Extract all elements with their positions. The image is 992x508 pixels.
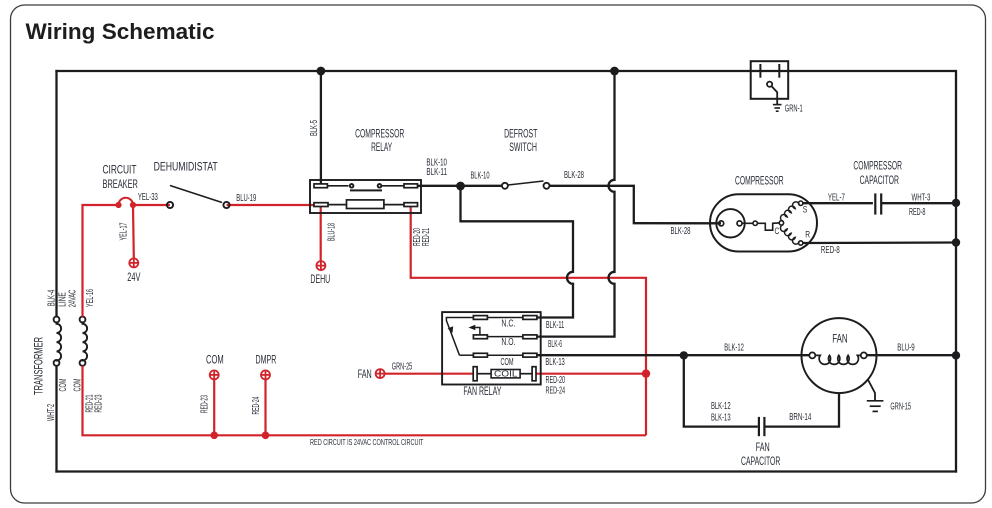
svg-text:BLU-18: BLU-18 (327, 223, 338, 241)
svg-text:BLK-13: BLK-13 (545, 357, 565, 368)
node red coil junction (642, 369, 650, 377)
svg-text:BLK-11: BLK-11 (426, 167, 447, 178)
svg-text:BLK-10: BLK-10 (471, 170, 490, 181)
wire bottom bus (55, 470, 957, 472)
svg-text:RED CIRCUIT IS 24VAC CONTROL C: RED CIRCUIT IS 24VAC CONTROL CIRCUIT (310, 437, 423, 447)
svg-text:RED-23: RED-23 (200, 395, 211, 413)
wire RED-23 COM terminal drop (213, 380, 215, 436)
node right bus RED-8 (952, 238, 960, 246)
svg-text:24V: 24V (127, 270, 140, 284)
node right bus BLU-9 (952, 351, 960, 359)
compressor overload circle (716, 209, 744, 237)
wire fan capacitor branch (684, 355, 758, 426)
svg-text:BLK-5: BLK-5 (309, 120, 320, 136)
svg-text:GRN-1: GRN-1 (785, 104, 803, 115)
wire RED-21/23 secondary down to red bus (83, 366, 647, 436)
svg-text:BLK-4: BLK-4 (47, 289, 58, 306)
wire BLU-18 relay to DEHU terminal (320, 207, 322, 262)
compressor capacitor C1 (874, 193, 876, 214)
wire left border top (BLK-4) (55, 70, 57, 317)
node red bus / COM (210, 432, 218, 440)
terminal FAN (376, 369, 385, 378)
svg-text:YEL-16: YEL-16 (85, 289, 96, 307)
plug P1 ground pin (767, 82, 772, 87)
wire BLK-13/BLK-12 com to fan (537, 354, 810, 356)
compressor M1 shell (710, 194, 817, 251)
relay K1 contact terminals (314, 184, 327, 188)
node red bus / DMPR (262, 432, 270, 440)
fan relay COM terminals (473, 353, 487, 357)
svg-text:FAN: FAN (832, 332, 848, 346)
dehumidistat switch (170, 186, 222, 203)
node junction top bus / BLK-5 (317, 67, 326, 76)
wire left border bottom (WHT-2) (55, 366, 57, 473)
svg-text:COMPRESSOR: COMPRESSOR (853, 159, 902, 173)
svg-text:RED-8: RED-8 (821, 245, 840, 256)
circuit breaker CB1 (118, 198, 133, 205)
plug P1 box (751, 61, 789, 99)
svg-text:WHT-3: WHT-3 (912, 192, 931, 203)
svg-text:DEHU: DEHU (310, 272, 330, 286)
compressor run winding R (781, 225, 800, 244)
svg-text:C: C (775, 226, 780, 236)
svg-text:S: S (803, 205, 808, 215)
svg-text:COM: COM (501, 357, 514, 368)
wire BLK-5 top bus to relay (320, 71, 322, 184)
svg-text:BLK-12: BLK-12 (724, 343, 744, 354)
terminal DEHU (316, 261, 325, 270)
svg-text:Wiring Schematic: Wiring Schematic (26, 19, 215, 44)
relay K1 box (310, 180, 421, 213)
transformer primary winding (54, 317, 62, 366)
svg-text:COM: COM (206, 353, 224, 367)
svg-text:BLU-9: BLU-9 (897, 342, 915, 353)
ground GRN-15 (867, 401, 884, 412)
svg-text:BLK-13: BLK-13 (711, 412, 731, 423)
svg-text:N.O.: N.O. (501, 337, 515, 348)
svg-text:GRN-15: GRN-15 (890, 401, 911, 412)
relay K1 coil box (347, 200, 384, 209)
wire BLK-11 junction to fan relay N.C. with hop (461, 186, 574, 318)
fan motor winding (809, 352, 815, 358)
svg-text:DMPR: DMPR (256, 353, 277, 367)
svg-text:BREAKER: BREAKER (103, 177, 139, 191)
wire RED-20/21 relay down and across to fan relay red node (411, 207, 646, 436)
svg-text:R: R (805, 229, 810, 239)
wire right border bus (955, 70, 957, 473)
node junction top bus / BLK-6 (610, 67, 619, 76)
svg-text:RED-23: RED-23 (94, 394, 105, 412)
svg-text:BLK-28: BLK-28 (671, 226, 691, 237)
svg-text:N.C.: N.C. (501, 319, 515, 330)
terminal COM (210, 370, 219, 379)
wire YEL-33 CB to dehumidistat (133, 204, 170, 206)
fan relay armature arm (446, 318, 473, 356)
fan relay coil bars (473, 367, 477, 381)
svg-text:YEL-17: YEL-17 (119, 222, 130, 240)
svg-text:COM: COM (58, 379, 69, 392)
wire BLK-6 vertical (top bus to fan relay N.O.) with hops (537, 71, 615, 337)
fan relay K2 box (442, 312, 541, 384)
svg-text:FAN: FAN (756, 440, 770, 454)
svg-text:BLK-28: BLK-28 (564, 170, 584, 181)
wire YEL-7 S terminal to capacitor (803, 202, 873, 204)
svg-text:RED-24: RED-24 (546, 386, 566, 397)
svg-text:FAN: FAN (358, 367, 372, 381)
transformer secondary winding (80, 317, 88, 366)
compressor internal overload link (742, 223, 780, 230)
svg-text:BLK-11: BLK-11 (546, 320, 565, 331)
node right bus WHT-3 (952, 199, 960, 207)
svg-text:RED-20: RED-20 (546, 375, 566, 386)
fan motor M2 (802, 318, 877, 393)
fan capacitor C2 (758, 417, 760, 436)
svg-text:COMPRESSOR: COMPRESSOR (735, 174, 784, 188)
fan relay coil box (491, 370, 520, 378)
wire fan motor ground branch (868, 379, 876, 401)
defrost switch S1 (508, 181, 544, 185)
svg-text:RED-8: RED-8 (909, 207, 926, 218)
svg-text:CAPACITOR: CAPACITOR (741, 454, 780, 468)
svg-text:COMPRESSOR: COMPRESSOR (355, 126, 404, 140)
svg-text:SWITCH: SWITCH (509, 140, 537, 154)
fan relay coil links (477, 373, 491, 375)
fan relay N.C. terminals (473, 316, 487, 320)
wire capacitor to fan bottom (766, 394, 840, 427)
relay K1 armature bar (350, 189, 382, 191)
compressor start winding S (781, 202, 800, 221)
fan relay N.O. terminals (473, 335, 487, 339)
svg-text:FAN RELAY: FAN RELAY (463, 384, 501, 398)
svg-text:CAPACITOR: CAPACITOR (860, 173, 899, 187)
svg-text:YEL-33: YEL-33 (138, 192, 158, 203)
wire RED-8 R terminal to right bus (803, 241, 956, 244)
svg-text:TRANSFORMER: TRANSFORMER (32, 337, 46, 395)
plug P1 prongs (759, 64, 761, 78)
svg-text:RED-24: RED-24 (251, 396, 262, 414)
svg-text:BLU-19: BLU-19 (236, 193, 256, 204)
wire YEL-17 down to 24V terminal (132, 205, 135, 258)
svg-text:CIRCUIT: CIRCUIT (103, 163, 137, 177)
svg-text:DEHUMIDISTAT: DEHUMIDISTAT (154, 160, 219, 174)
wire WHT-3 capacitor to right bus (882, 202, 956, 204)
svg-text:WHT-2: WHT-2 (46, 404, 57, 421)
svg-text:COIL: COIL (494, 370, 518, 379)
wire top bus L1 (55, 70, 956, 72)
wire BLK-28 defrost to compressor (550, 186, 722, 224)
wire BLU-9 fan to right bus (867, 354, 956, 356)
node fan cap junction (680, 351, 688, 359)
svg-text:RED-21: RED-21 (421, 228, 432, 246)
wire relay to junction (418, 185, 503, 187)
ground GRN-1 (773, 105, 782, 112)
svg-text:BLK-12: BLK-12 (711, 401, 731, 412)
wire BLU-19 dehumidistat to compressor relay (227, 204, 317, 206)
fan relay N.O. pickup arrow (471, 328, 480, 335)
terminal DMPR (261, 370, 270, 379)
svg-text:DEFROST: DEFROST (504, 126, 538, 140)
wire RED-24 DMPR terminal drop (264, 380, 266, 436)
relay K1 coil terminals (314, 203, 328, 207)
svg-text:24VAC: 24VAC (68, 290, 79, 308)
svg-text:BLK-6: BLK-6 (548, 339, 562, 350)
svg-text:BRN-14: BRN-14 (789, 412, 811, 423)
wire RED-20/24 coil to red node (536, 373, 646, 375)
svg-text:RELAY: RELAY (371, 140, 392, 154)
svg-text:YEL-7: YEL-7 (828, 192, 845, 203)
terminal 24V (129, 258, 138, 267)
wire YEL-16 secondary up (83, 205, 119, 317)
svg-text:GRN-25: GRN-25 (392, 362, 413, 373)
node BLK-10/BLK-11 junction (456, 182, 465, 191)
wire GRN-25 fan terminal to coil (385, 373, 475, 375)
